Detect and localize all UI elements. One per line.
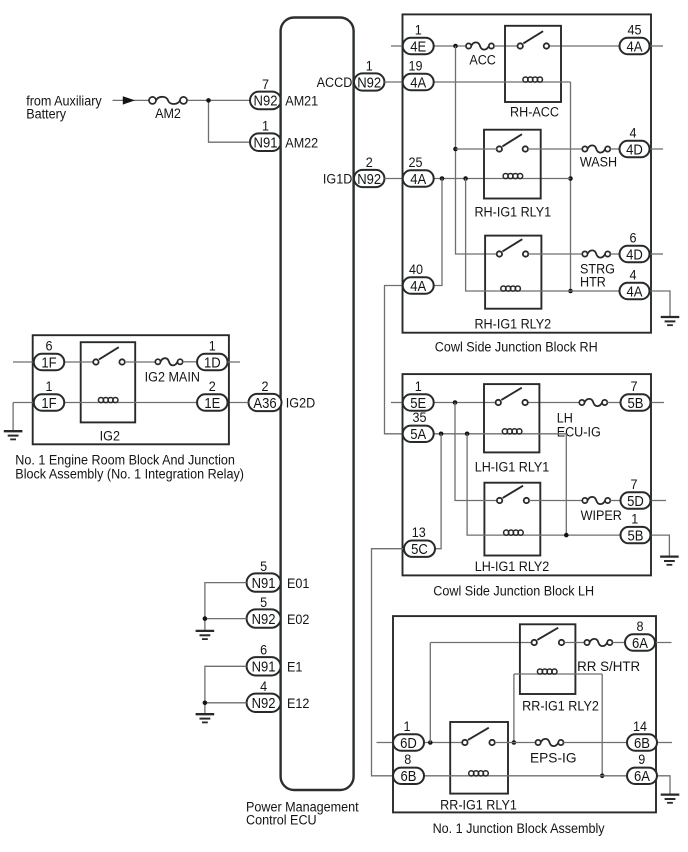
- svg-text:N92: N92: [252, 611, 276, 627]
- wire to RLY1 switch: [456, 148, 497, 150]
- ground LH coil return: [660, 557, 679, 565]
- svg-text:35: 35: [413, 410, 427, 426]
- svg-text:HTR: HTR: [580, 274, 606, 290]
- svg-text:N91: N91: [252, 575, 276, 591]
- svg-text:IG2D: IG2D: [286, 395, 315, 411]
- fuse WIPER: [582, 497, 610, 504]
- svg-text:6: 6: [629, 230, 636, 246]
- connector 4D pin 4: [620, 125, 650, 158]
- connector N92 pin 5 (E02): [247, 594, 281, 627]
- label AM2: [155, 106, 181, 122]
- wire RLY1 switch to fuse WASH: [528, 148, 582, 150]
- wire 5A through LH-IG1 RLY1 coil: [434, 433, 567, 435]
- svg-text:1: 1: [366, 58, 373, 74]
- connector 4A pin 25: [403, 154, 434, 187]
- wire 6D feed up to RLY2 switch: [429, 643, 431, 743]
- wire 5B pin 1 to ground: [651, 535, 669, 556]
- label LH: [557, 410, 573, 426]
- svg-text:IG1D: IG1D: [323, 171, 352, 187]
- connector 4E pin 1: [403, 22, 434, 55]
- wire stub right of 4A pin 45: [649, 45, 663, 47]
- svg-text:E02: E02: [287, 611, 309, 627]
- junction dot RLY1 output: [512, 740, 517, 745]
- svg-text:1: 1: [262, 118, 269, 134]
- svg-text:WIPER: WIPER: [581, 508, 622, 524]
- svg-text:N91: N91: [252, 659, 276, 675]
- svg-text:5D: 5D: [627, 493, 644, 509]
- wire with arrow from auxiliary battery: [113, 96, 150, 104]
- connector 5A pin 35: [403, 410, 434, 443]
- relay RH-IG1 RLY1 coil: [503, 173, 523, 178]
- relay RH-IG1 RLY1 switch contacts: [497, 134, 528, 152]
- relay RH-IG1 RLY2 box: [485, 236, 541, 309]
- label from Auxiliary Battery: [26, 93, 102, 109]
- svg-text:Cowl Side Junction Block LH: Cowl Side Junction Block LH: [433, 583, 594, 599]
- svg-text:N92: N92: [357, 75, 381, 91]
- label RH-IG1 RLY1: [474, 204, 551, 220]
- svg-text:RH-IG1 RLY2: RH-IG1 RLY2: [474, 316, 551, 332]
- wire RLY2 switch to fuse RR S/HTR: [564, 642, 584, 644]
- wire fuse WASH to 4D: [610, 148, 621, 150]
- junction dot 5E feed: [453, 400, 458, 405]
- svg-text:7: 7: [630, 378, 637, 394]
- wire 1F to IG2 switch: [65, 361, 94, 363]
- junction dot RLY2 coil return: [600, 774, 605, 779]
- svg-text:4A: 4A: [410, 75, 427, 91]
- connector 5D pin 7: [621, 476, 651, 509]
- wire 4E feed to RLY1/RLY2 switches: [456, 46, 497, 254]
- svg-text:6D: 6D: [400, 735, 417, 751]
- wire LH RLY2 coil line: [467, 434, 621, 535]
- svg-text:5E: 5E: [410, 395, 426, 411]
- connector 5B pin 1: [621, 511, 651, 544]
- svg-text:1: 1: [45, 378, 52, 394]
- svg-text:4D: 4D: [626, 142, 643, 158]
- wire fuse EPS-IG to 6B: [564, 742, 629, 744]
- svg-text:EPS-IG: EPS-IG: [530, 749, 577, 765]
- label LH-IG1 RLY1: [475, 459, 550, 475]
- svg-text:25: 25: [409, 154, 423, 170]
- junction dot IG1 to 4A pin 40: [440, 176, 445, 181]
- wire stub left of 4E: [391, 45, 404, 47]
- connector 1F pin 1: [34, 378, 65, 411]
- connector 6A pin 9: [627, 752, 657, 785]
- svg-text:5: 5: [260, 594, 267, 610]
- wire to RR-IG1 RLY2 switch: [430, 642, 531, 644]
- ground E1/E12: [196, 714, 215, 722]
- wire IG1 down to 4A pin 40: [434, 179, 442, 286]
- junction dot coil returns RLY2: [568, 289, 573, 294]
- svg-text:A36: A36: [253, 395, 277, 411]
- fuse RR S/HTR: [584, 639, 612, 646]
- svg-text:1: 1: [209, 338, 216, 354]
- svg-text:1E: 1E: [204, 395, 220, 411]
- wire 4A pin 40 to LH 5A pin 35: [385, 286, 404, 434]
- title Cowl Side Junction Block RH: [435, 339, 598, 355]
- svg-text:6: 6: [260, 642, 267, 658]
- wire RLY1 switch to fuse EPS-IG: [495, 742, 536, 744]
- svg-text:5B: 5B: [628, 395, 644, 411]
- relay LH-IG1 RLY1 box: [484, 384, 539, 452]
- connector N92 pin 7 (AM21): [250, 76, 281, 109]
- label WASH: [580, 154, 617, 170]
- connector 1F pin 6: [34, 338, 65, 371]
- connector 6A pin 8: [625, 618, 655, 651]
- connector 5E pin 1: [403, 378, 434, 411]
- connector N92 pin 1 (ACCD): [354, 58, 385, 91]
- title No. 1 Engine Room Block line 1: [15, 452, 235, 468]
- wire 5E feed to RLY2 switch: [455, 403, 497, 501]
- svg-text:RH-IG1 RLY1: RH-IG1 RLY1: [474, 204, 551, 220]
- wire RLY2 switch to fuse STRG HTR: [528, 253, 582, 255]
- svg-text:Cowl Side Junction Block RH: Cowl Side Junction Block RH: [435, 339, 598, 355]
- wire E1/E12 to ground: [205, 666, 247, 714]
- wire fuse WIPER to 5D: [610, 500, 621, 502]
- relay IG2 coil: [98, 397, 118, 402]
- pin label E12: [287, 695, 309, 711]
- ground RH coil return: [661, 317, 680, 325]
- wire IG2 coil line: [65, 402, 198, 404]
- relay RH-IG1 RLY2 switch contacts: [497, 239, 529, 257]
- svg-text:RR-IG1 RLY2: RR-IG1 RLY2: [522, 698, 599, 714]
- svg-text:6B: 6B: [634, 735, 650, 751]
- connector 4A pin 40: [403, 261, 434, 294]
- relay RH-ACC switch contacts: [518, 31, 550, 49]
- relay RR-IG1 RLY2 switch contacts: [532, 628, 565, 646]
- svg-text:1F: 1F: [41, 355, 56, 371]
- svg-text:40: 40: [409, 261, 423, 277]
- wire stub right of 4D pin 6: [648, 253, 663, 255]
- relay IG2 box: [81, 342, 136, 422]
- connector 1E pin 2: [197, 378, 228, 411]
- pin label IG2D: [286, 395, 315, 411]
- ground E01/E02: [196, 631, 215, 639]
- connector N92 pin 2 (IG1D): [354, 154, 385, 187]
- pin label AM22: [285, 135, 318, 151]
- svg-text:LH-IG1 RLY1: LH-IG1 RLY1: [475, 459, 550, 475]
- Cowl Side Junction Block RH box: [403, 14, 652, 332]
- svg-text:7: 7: [262, 76, 269, 92]
- fuse IG2 MAIN: [155, 358, 182, 365]
- relay RR-IG1 RLY2 coil: [537, 669, 557, 674]
- wire stub right of 4D pin 4: [648, 148, 663, 150]
- wire stub left of 6D: [377, 742, 394, 744]
- pin label ACCD: [317, 75, 353, 91]
- svg-text:1D: 1D: [204, 355, 221, 371]
- connector 6B pin 14: [627, 718, 657, 751]
- wire RH-ACC coil return down: [570, 82, 572, 291]
- wire 4A pin 4 to ground: [647, 291, 670, 316]
- wire 5C to No.1 junction block 6B pin 8: [372, 549, 405, 776]
- relay LH-IG1 RLY2 box: [484, 483, 540, 556]
- wire fuse IG2 MAIN to 1D: [183, 361, 198, 363]
- label RR-IG1 RLY1: [440, 797, 517, 813]
- connector N91 pin 1 (AM22): [250, 118, 281, 151]
- svg-text:N92: N92: [252, 695, 276, 711]
- wire 4E to fuse ACC: [434, 45, 466, 47]
- relay RR-IG1 RLY2 box: [520, 624, 576, 694]
- connector 4A pin 19: [403, 58, 434, 91]
- svg-text:N92: N92: [254, 93, 278, 109]
- wire RH-ACC switch to 4A pin 45: [549, 45, 620, 47]
- connector 6D pin 1: [393, 718, 424, 751]
- svg-text:LH-IG1 RLY2: LH-IG1 RLY2: [475, 558, 550, 574]
- wire stub left of 5E: [391, 402, 404, 404]
- junction dot AM2 branch: [206, 98, 211, 103]
- svg-text:14: 14: [633, 718, 647, 734]
- wire RLY2 switch to fuse WIPER: [529, 500, 582, 502]
- svg-text:4: 4: [260, 679, 267, 695]
- svg-text:Control ECU: Control ECU: [246, 812, 317, 828]
- connector N91 pin 6 (E1): [247, 642, 281, 675]
- svg-text:4: 4: [629, 267, 636, 283]
- wire E01/E02 to ground: [205, 583, 247, 631]
- relay RH-ACC box: [505, 26, 561, 102]
- relay IG2 switch contacts: [93, 347, 125, 364]
- connector 4D pin 6: [620, 230, 650, 263]
- svg-text:4A: 4A: [627, 39, 644, 55]
- wire AM2 fuse to connector N92 AM21: [188, 99, 251, 101]
- svg-text:5B: 5B: [628, 528, 644, 544]
- op-amp U1 Power Management Control ECU body: [281, 18, 354, 791]
- svg-text:4A: 4A: [627, 284, 644, 300]
- svg-text:2: 2: [366, 154, 373, 170]
- pin label E01: [287, 575, 309, 591]
- wire RLY1 output to RLY2 coil: [513, 674, 515, 743]
- connector A36 pin 2 (IG2D): [249, 378, 282, 411]
- wire 1E to A36: [228, 402, 249, 404]
- label EPS-IG: [530, 749, 577, 765]
- pin label AM21: [285, 93, 318, 109]
- wire RR-IG1 RLY2 coil line: [514, 673, 602, 675]
- svg-text:6A: 6A: [634, 768, 651, 784]
- svg-text:19: 19: [409, 58, 423, 74]
- wire stub left of 1F pin 6: [13, 361, 34, 363]
- svg-text:E1: E1: [287, 659, 302, 675]
- wire RLY2 coil return down: [601, 674, 603, 776]
- pin label IG1D: [323, 171, 352, 187]
- label RR S/HTR: [577, 659, 640, 674]
- relay RR-IG1 RLY1 box: [450, 722, 508, 794]
- svg-text:1: 1: [631, 511, 638, 527]
- label ACC: [469, 52, 496, 68]
- connector 5B pin 7: [621, 378, 651, 411]
- junction dot RLY1 switch feed: [453, 147, 458, 152]
- wire IG1D to junction block RH 4A: [384, 178, 403, 180]
- relay RR-IG1 RLY1 switch contacts: [462, 728, 495, 746]
- fuse AM2: [149, 97, 187, 104]
- svg-text:8: 8: [636, 618, 643, 634]
- No. 1 Junction Block Assembly box: [393, 616, 656, 812]
- connector 1D pin 1: [197, 338, 228, 371]
- relay RH-IG1 RLY1 box: [484, 130, 541, 199]
- connector N92 pin 4 (E12): [247, 679, 281, 712]
- connector 4A pin 45: [620, 22, 650, 55]
- relay LH-IG1 RLY2 coil: [504, 530, 524, 535]
- svg-text:1: 1: [415, 378, 422, 394]
- wire 6A pin 9 to ground: [656, 776, 670, 794]
- Cowl Side Junction Block LH box: [403, 374, 652, 575]
- svg-text:Battery: Battery: [26, 106, 66, 122]
- svg-text:RR-IG1 RLY1: RR-IG1 RLY1: [440, 797, 517, 813]
- svg-text:AM22: AM22: [285, 135, 318, 151]
- ground No.1 junction block: [661, 795, 680, 803]
- svg-text:5C: 5C: [411, 541, 428, 557]
- svg-text:6B: 6B: [401, 768, 417, 784]
- svg-text:ACC: ACC: [469, 52, 496, 68]
- svg-text:No. 1 Junction Block Assembly: No. 1 Junction Block Assembly: [433, 820, 605, 836]
- wire stub right of 6B pin 14: [657, 742, 672, 744]
- wire stub right of 5D pin 7: [651, 500, 666, 502]
- svg-text:WASH: WASH: [580, 154, 617, 170]
- label RH-ACC: [510, 104, 559, 120]
- svg-text:4A: 4A: [410, 278, 427, 294]
- wire fuse RR S/HTR to 6A: [612, 642, 625, 644]
- fuse EPS-IG: [536, 739, 564, 746]
- svg-text:5: 5: [260, 558, 267, 574]
- pin label E1: [287, 659, 302, 675]
- label IG2: [100, 428, 120, 444]
- title Cowl Side Junction Block LH: [433, 583, 594, 599]
- connector 5C pin 13: [404, 524, 435, 557]
- svg-text:4: 4: [629, 125, 636, 141]
- relay RR-IG1 RLY1 coil: [469, 771, 489, 776]
- wire 5A down to 5C: [435, 434, 441, 549]
- svg-text:9: 9: [638, 752, 645, 768]
- junction dot IG1 to RLY2 coil: [463, 176, 468, 181]
- svg-text:4D: 4D: [626, 247, 643, 263]
- junction dot 4E feed: [453, 44, 458, 49]
- svg-text:8: 8: [404, 752, 411, 768]
- svg-text:N91: N91: [254, 135, 278, 151]
- svg-text:ECU-IG: ECU-IG: [557, 424, 601, 440]
- fuse STRG HTR: [582, 250, 610, 257]
- relay LH-IG1 RLY1 coil: [502, 429, 522, 434]
- svg-text:IG2 MAIN: IG2 MAIN: [145, 369, 200, 385]
- svg-text:AM21: AM21: [285, 93, 318, 109]
- junction dot 5A to 5C: [439, 432, 444, 437]
- svg-text:IG2: IG2: [100, 428, 120, 444]
- wire fuse to 5B: [607, 402, 621, 404]
- svg-text:AM2: AM2: [155, 106, 181, 122]
- wire branch to connector N91 AM22: [209, 100, 251, 142]
- relay RH-ACC coil: [523, 77, 543, 82]
- label Power Management Control ECU: [246, 799, 359, 815]
- junction dot E1/E12 ground: [203, 701, 208, 706]
- svg-text:2: 2: [261, 378, 268, 394]
- svg-text:N92: N92: [357, 171, 381, 187]
- ground IG2 coil: [4, 431, 23, 439]
- relay LH-IG1 RLY1 switch contacts: [496, 388, 528, 405]
- svg-text:2: 2: [209, 378, 216, 394]
- junction dot LH coil returns: [564, 533, 569, 538]
- wire 1F pin 1 to ground: [13, 403, 34, 431]
- wire ACCD 4A through RH-ACC coil: [434, 81, 571, 83]
- junction dot 5A to RLY2 coil: [465, 432, 470, 437]
- svg-text:4A: 4A: [410, 171, 427, 187]
- label LH-IG1 RLY2: [475, 558, 550, 574]
- wire RLY1 switch to fuse LH ECU-IG: [528, 402, 579, 404]
- label RR-IG1 RLY2: [522, 698, 599, 714]
- wire stub right of 5B pin 7: [651, 402, 664, 404]
- svg-text:13: 13: [412, 524, 426, 540]
- wire IG1D 4A through RH-IG1 RLY1 coil: [434, 178, 571, 180]
- fuse WASH: [582, 145, 610, 152]
- wire stub right of 1D: [228, 361, 241, 363]
- wire 6B pin 8 through RR-IG1 RLY1 coil: [418, 775, 628, 777]
- svg-text:ACCD: ACCD: [317, 75, 353, 91]
- connector 6B pin 8: [393, 752, 424, 785]
- wire IG2 switch to fuse IG2 MAIN: [125, 361, 156, 363]
- label WIPER: [581, 508, 622, 524]
- junction dot E01/E02 ground: [203, 616, 208, 621]
- label RH-IG1 RLY2: [474, 316, 551, 332]
- junction dot 6D to RLY2 switch: [428, 740, 433, 745]
- pin label E02: [287, 611, 309, 627]
- label STRG: [580, 261, 615, 277]
- No. 1 Engine Room Block And Junction Block Assembly box: [33, 335, 229, 444]
- wire 6D to RR-IG1 RLY1 switch: [424, 742, 462, 744]
- svg-text:5A: 5A: [410, 426, 427, 442]
- fuse LH ECU-IG: [579, 399, 607, 406]
- svg-text:E12: E12: [287, 695, 309, 711]
- wire RLY2 coil line: [466, 179, 621, 292]
- wire stub right of 6A pin 8: [655, 642, 672, 644]
- svg-text:6A: 6A: [632, 635, 649, 651]
- wire 5E to LH-IG1 RLY1 switch: [434, 402, 496, 404]
- svg-text:1F: 1F: [41, 395, 56, 411]
- svg-text:7: 7: [630, 476, 637, 492]
- wire fuse ACC to RH-ACC switch: [494, 45, 518, 47]
- svg-text:RR S/HTR: RR S/HTR: [577, 659, 640, 674]
- svg-text:1: 1: [403, 718, 410, 734]
- connector 4A pin 4: [620, 267, 650, 300]
- wire ACCD to junction block RH 4A: [384, 81, 403, 83]
- relay RH-IG1 RLY2 coil: [501, 286, 521, 291]
- junction dot coil returns RLY1: [568, 176, 573, 181]
- svg-text:4E: 4E: [410, 39, 426, 55]
- relay LH-IG1 RLY2 switch contacts: [497, 486, 529, 503]
- wire fuse STRG HTR to 4D: [610, 253, 621, 255]
- wire RLY1 coil return down: [565, 434, 567, 535]
- connector N91 pin 5 (E01): [247, 558, 281, 591]
- svg-text:45: 45: [628, 22, 642, 38]
- fuse ACC: [466, 42, 494, 49]
- svg-text:1: 1: [415, 22, 422, 38]
- svg-text:Block Assembly (No. 1 Integrat: Block Assembly (No. 1 Integration Relay): [15, 466, 244, 482]
- label IG2 MAIN: [145, 369, 200, 385]
- title No. 1 Junction Block Assembly: [433, 820, 605, 836]
- svg-text:6: 6: [45, 338, 52, 354]
- svg-text:E01: E01: [287, 575, 309, 591]
- svg-text:RH-ACC: RH-ACC: [510, 104, 559, 120]
